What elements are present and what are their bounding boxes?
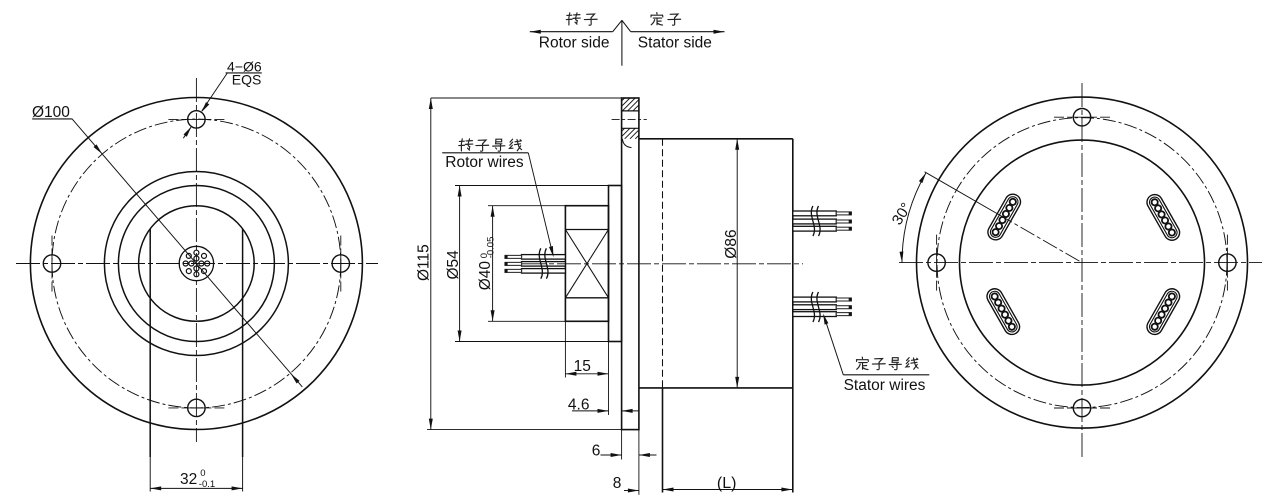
dimension D115 (431, 97, 622, 99)
front view: flange outer circle D115 (30, 98, 362, 430)
svg-text:Rotor wires: Rotor wires (445, 154, 524, 171)
rotor wires (505, 255, 566, 274)
svg-text:Stator side: Stator side (638, 35, 712, 52)
rear view: connector slot lower-right (1144, 286, 1182, 337)
30 degree radial line (925, 172, 998, 214)
svg-text:8: 8 (613, 475, 622, 492)
crosshair (340, 236, 342, 292)
section: rotor hub disc D54 (609, 186, 622, 342)
front view: circle D54 (118, 186, 274, 342)
rear view: bolt hole D6 left (928, 254, 945, 271)
rear view: bolt hole D6 top (1073, 109, 1090, 126)
30 degree arc dimension (902, 173, 926, 263)
svg-text:-0.05: -0.05 (486, 237, 497, 259)
flange bolt hole section lines (622, 110, 639, 112)
dimension D86 (736, 139, 738, 388)
front view: rotor slot 32mm left edge (149, 229, 151, 457)
front view: rotor circle D40 (139, 206, 255, 322)
middle view horizontal centerline (522, 263, 803, 265)
rear view: housing circle D86 (960, 140, 1205, 385)
section: stator housing D86 (639, 138, 793, 140)
svg-text:Rotor side: Rotor side (539, 35, 610, 52)
dimension D40 0/-0.05 (488, 205, 565, 207)
dimension D54 (455, 185, 609, 187)
dimension 8 (624, 490, 639, 492)
front view: vertical centerline (195, 78, 197, 442)
front view: rotor slot 32mm right edge (242, 229, 244, 457)
flange bolt hole centerline (612, 119, 647, 121)
section: rotor body D40 (565, 206, 608, 322)
front view: horizontal centerline (16, 263, 378, 265)
svg-text:32: 32 (180, 471, 197, 488)
stator wires leader (824, 316, 843, 375)
flange root fillet (622, 139, 631, 148)
dimension 15 (564, 321, 566, 377)
label stator wires (CN) (856, 357, 868, 369)
front view: bolt hole D6 right (332, 255, 349, 272)
crosshair (168, 118, 224, 120)
front view: center wire bundle outline (179, 246, 213, 280)
label rotor side (CN) (566, 13, 580, 25)
rotor/stator divider header (530, 31, 613, 33)
svg-text:Ø86: Ø86 (723, 229, 740, 258)
bearing block with cross (565, 229, 608, 231)
svg-text:Ø40: Ø40 (477, 261, 494, 291)
dimension 4.6 (572, 410, 609, 412)
front view: bolt hole D6 top (188, 111, 205, 128)
front view: bolt hole D6 left (43, 255, 60, 272)
rear view horizontal centerline (899, 262, 1262, 264)
stator wires bottom group (793, 297, 852, 316)
front view: boss circle D64 (104, 172, 288, 356)
rear view: connector slot upper-left (985, 191, 1023, 242)
svg-text:(L): (L) (717, 475, 737, 492)
crosshair (1226, 235, 1228, 291)
svg-text:6: 6 (592, 442, 601, 459)
front view: D100 diameter leader line (72, 119, 302, 387)
rear view: connector slot lower-left (984, 286, 1022, 337)
rotor wire break symbol (539, 248, 542, 278)
section hatching of flange (622, 98, 639, 139)
crosshair (168, 407, 224, 409)
section: flange plate D115 (622, 98, 639, 430)
dimension 32 0/-0.1 (150, 487, 242, 489)
svg-text:Stator wires: Stator wires (844, 377, 926, 394)
svg-text:Ø54: Ø54 (445, 250, 462, 280)
stator wires top group (793, 211, 852, 231)
crosshair (51, 236, 53, 292)
svg-text:4.6: 4.6 (568, 397, 590, 414)
crosshair (1054, 407, 1110, 409)
svg-text:Ø115: Ø115 (416, 244, 433, 281)
svg-text:-0.1: -0.1 (199, 479, 215, 490)
front view: bolt hole D6 bottom (188, 399, 205, 416)
rear view: bolt hole D6 right (1219, 254, 1236, 271)
front view: bolt circle D100 (center line) (52, 119, 341, 408)
stator body (L) extension (662, 388, 664, 493)
dimension 6 (621, 430, 623, 460)
front view: wire bundle conductors (183, 250, 210, 277)
rear view: outer circle D115 (917, 97, 1248, 428)
dimension (L) (663, 489, 793, 491)
svg-text:15: 15 (574, 358, 591, 375)
rotor wires leader (528, 153, 553, 255)
svg-text:EQS: EQS (232, 71, 262, 87)
crosshair (1054, 116, 1110, 118)
hidden edge of housing bore (662, 139, 664, 388)
svg-text:0: 0 (200, 468, 205, 479)
label rotor wires (CN) (459, 139, 473, 151)
rear view: bolt hole D6 bottom (1073, 399, 1090, 416)
label stator side (CN) (651, 13, 663, 25)
rear view: connector slot upper-right (1144, 192, 1182, 243)
rear view: bolt circle D100 (937, 118, 1227, 408)
crosshair (936, 235, 938, 291)
rear view vertical centerline (1081, 83, 1083, 459)
